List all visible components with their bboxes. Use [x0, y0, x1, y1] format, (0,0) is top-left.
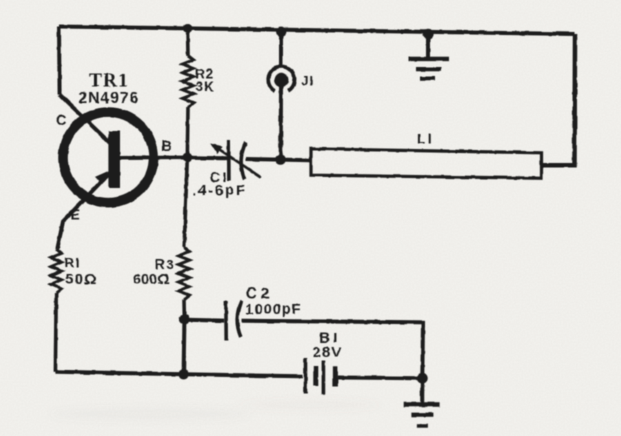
ground bottom: [404, 378, 440, 426]
wire R2 bottom lead: [186, 107, 190, 158]
battery B1 plate short 2: [333, 366, 338, 386]
wire L1 left lead: [281, 158, 311, 163]
svg-text:LI: LI: [417, 131, 434, 147]
capacitor C2 curved plate: [237, 301, 241, 337]
wire R2 top lead: [186, 29, 190, 56]
wire R1 bottom lead: [54, 293, 58, 372]
wire top rail: [59, 27, 575, 35]
transistor TR1 circle: [63, 112, 154, 203]
svg-text:B: B: [162, 139, 172, 155]
transistor TR1 base bar: [108, 131, 120, 188]
resistor R1: [51, 249, 61, 293]
wire R3 top lead: [184, 158, 187, 247]
wire left rail: [57, 27, 62, 95]
svg-text:2N4976: 2N4976: [78, 90, 139, 107]
svg-text:.4-6pF: .4-6pF: [192, 183, 247, 199]
battery B1 plate long 1: [304, 358, 308, 394]
node top ground junction: [423, 29, 433, 39]
svg-text:TR1: TR1: [89, 71, 129, 92]
battery B1 plate long 2: [322, 361, 326, 395]
capacitor C1 fixed plate: [227, 141, 231, 182]
resistor R2: [183, 56, 194, 108]
capacitor C1 curved plate: [241, 142, 246, 179]
transistor TR1 emitter arrow: [96, 172, 107, 183]
node R3/C2 junction: [179, 314, 189, 324]
wire C1 left lead: [187, 156, 227, 161]
svg-text:3K: 3K: [195, 79, 214, 94]
svg-text:R3: R3: [155, 257, 175, 272]
wire bottom rail: [55, 372, 302, 377]
svg-text:E: E: [71, 208, 81, 224]
svg-text:RI: RI: [65, 256, 81, 271]
capacitor C1 trimmer arrow: [215, 147, 261, 178]
svg-text:JI: JI: [302, 74, 314, 88]
node C1/J1/L1 junction: [276, 154, 286, 164]
inductor L1: [311, 149, 542, 178]
wire right rail: [542, 34, 576, 165]
wire C2 left lead: [184, 318, 224, 323]
node bottom rail junction: [178, 369, 188, 379]
wire battery right lead: [338, 376, 423, 381]
resistor R3: [179, 247, 190, 300]
wire emitter lead: [57, 172, 111, 250]
node battery/ground junction: [417, 373, 428, 384]
wire collector lead: [60, 95, 111, 144]
faint paper smudges: [50, 400, 380, 420]
wire C2 right lead: [242, 321, 424, 378]
capacitor C2 left plate: [224, 301, 228, 341]
svg-text:50Ω: 50Ω: [65, 271, 97, 288]
svg-text:1000pF: 1000pF: [246, 302, 302, 318]
node top R2 junction: [183, 24, 193, 34]
svg-text:28V: 28V: [313, 344, 343, 361]
wire J1 top lead: [279, 32, 283, 67]
node B junction: [182, 153, 192, 163]
wire R3 bottom lead: [182, 300, 186, 320]
wire base lead: [120, 156, 187, 161]
node top J1 junction: [276, 27, 286, 37]
connector J1 center pin: [274, 73, 288, 87]
wire J1 bottom lead: [279, 86, 283, 160]
ground top: [409, 34, 450, 78]
connector J1 outer shell: [268, 66, 294, 91]
svg-text:C: C: [56, 113, 67, 129]
svg-text:600Ω: 600Ω: [133, 272, 170, 288]
wire C1 right lead: [246, 157, 281, 162]
wire R3 junction to bottom rail: [182, 319, 187, 374]
svg-text:C2: C2: [246, 285, 273, 302]
battery B1 plate short 1: [313, 366, 318, 386]
